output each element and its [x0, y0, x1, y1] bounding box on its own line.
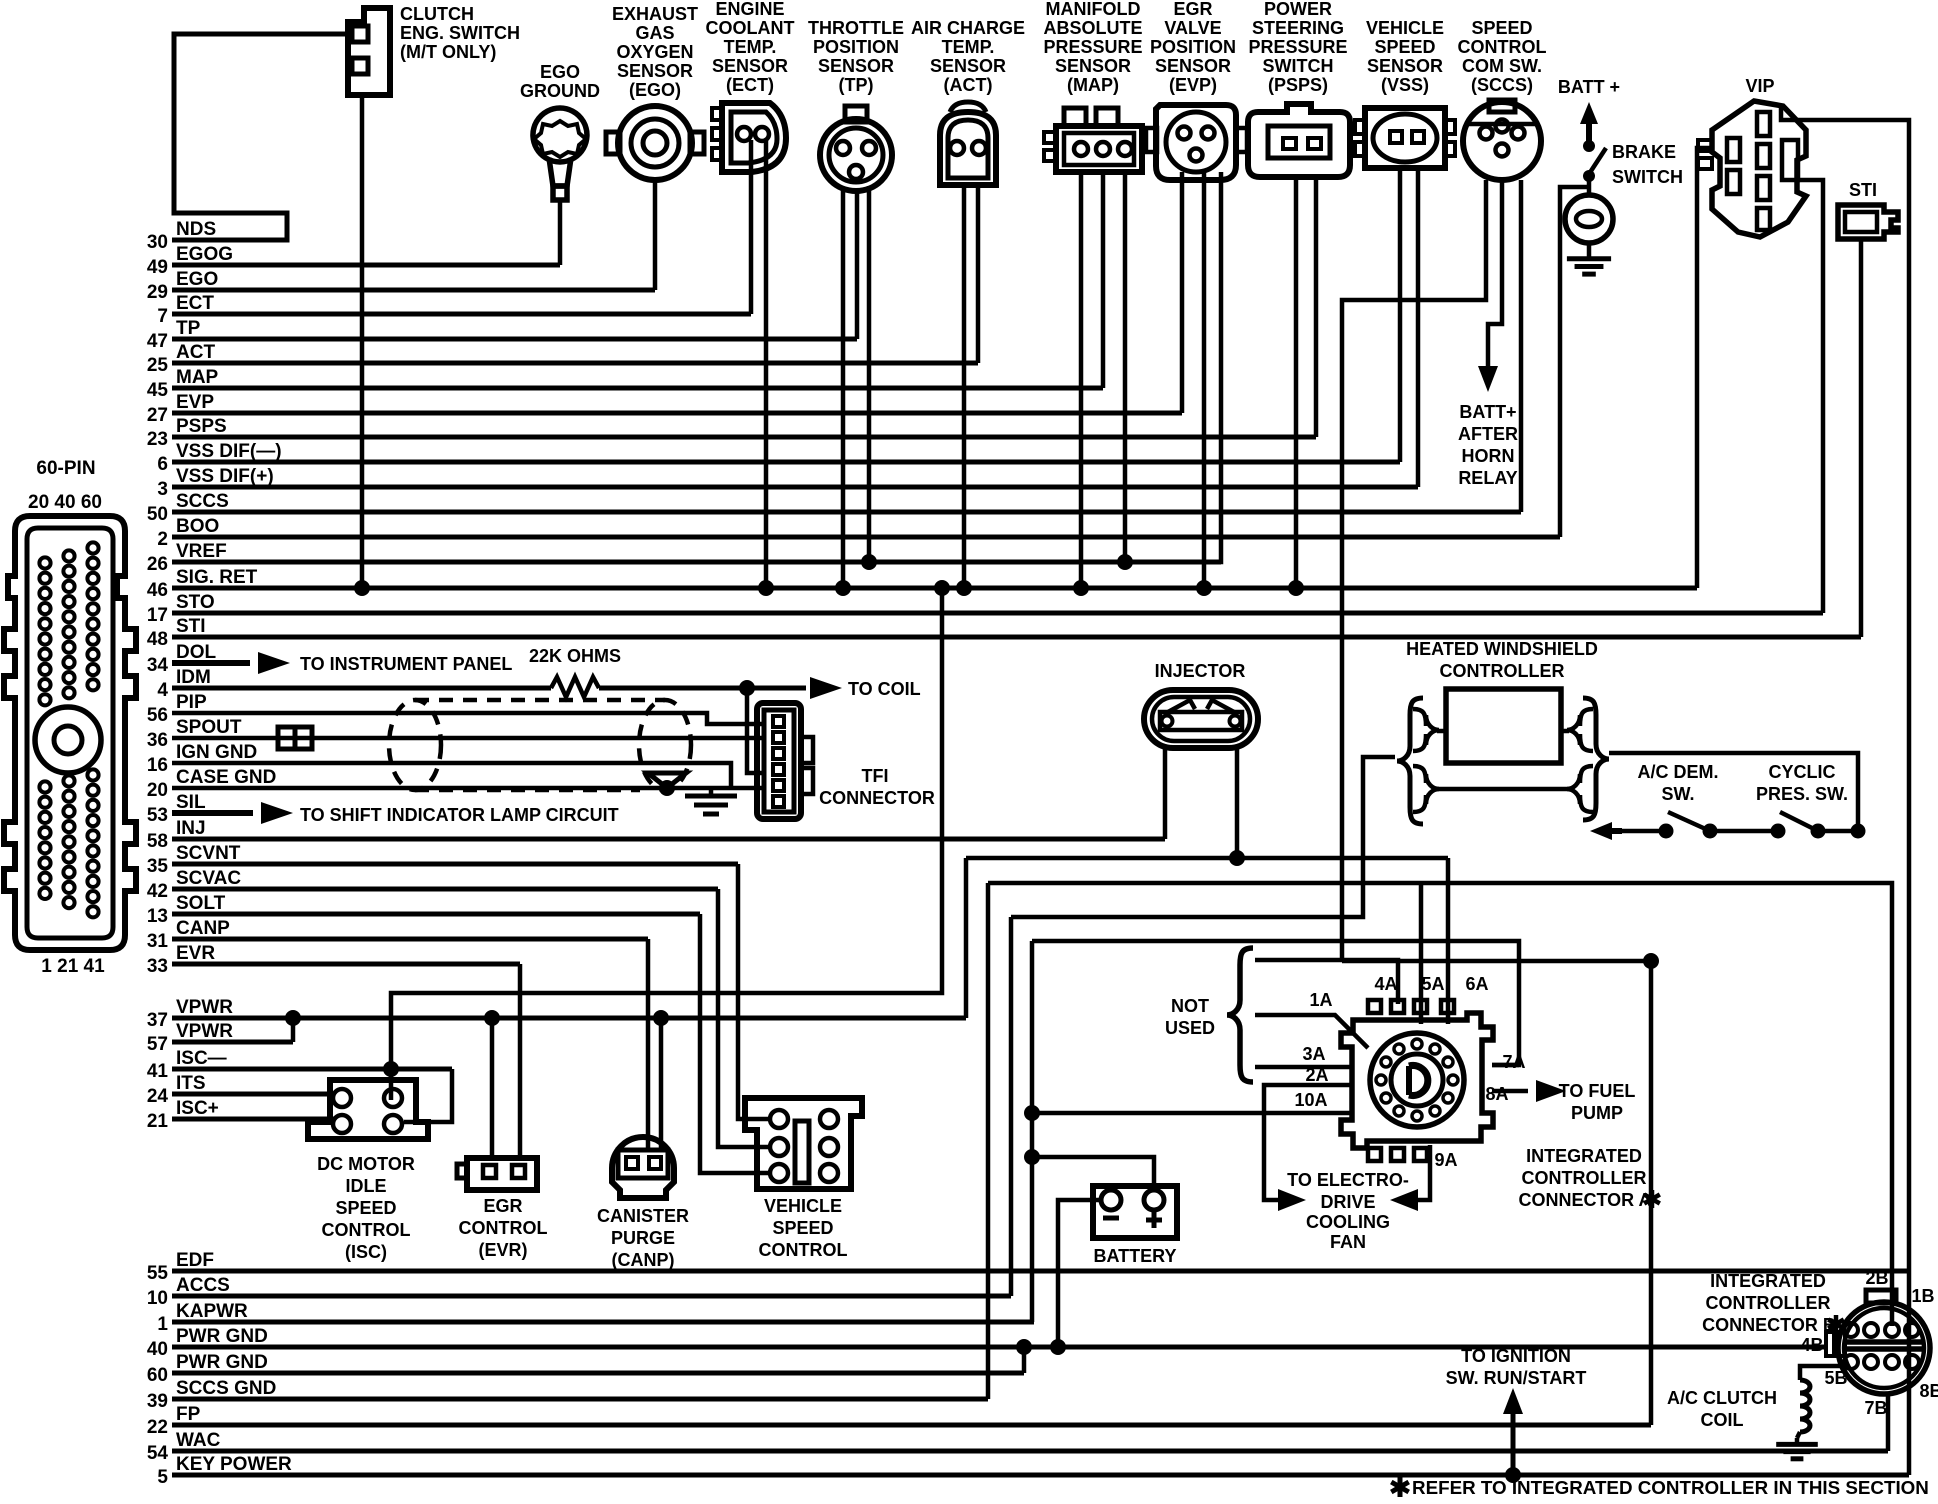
svg-text:COOLANT: COOLANT [706, 18, 795, 38]
svg-text:CONNECTOR: CONNECTOR [819, 788, 935, 808]
wire 5B to A/C clutch coil [1800, 1366, 1847, 1380]
ground symbol below brake lamp [1587, 243, 1592, 252]
svg-text:INJECTOR: INJECTOR [1155, 661, 1246, 681]
svg-text:SPEED: SPEED [1374, 37, 1435, 57]
svg-text:KAPWR: KAPWR [176, 1301, 248, 1322]
wire VPWR57 riser [291, 1018, 296, 1042]
svg-text:(EVR): (EVR) [479, 1240, 528, 1260]
svg-text:DRIVE: DRIVE [1320, 1192, 1375, 1212]
svg-text:20 40 60: 20 40 60 [28, 492, 102, 513]
svg-text:ABSOLUTE: ABSOLUTE [1044, 18, 1143, 38]
connector 60-PIN pin holes [39, 542, 98, 917]
svg-text:SIL: SIL [176, 792, 206, 813]
svg-text:41: 41 [147, 1061, 169, 1082]
svg-text:SENSOR: SENSOR [617, 61, 693, 81]
connector SPOUT in-line connector symbol [278, 727, 295, 749]
svg-text:BOO: BOO [176, 516, 219, 537]
svg-text:SENSOR: SENSOR [818, 56, 894, 76]
svg-text:27: 27 [147, 405, 168, 426]
svg-text:SWITCH: SWITCH [1263, 56, 1334, 76]
wire PSPS pin to PSPS row [1314, 177, 1319, 437]
svg-text:EVP: EVP [176, 392, 214, 413]
svg-text:NOT: NOT [1171, 996, 1209, 1016]
svg-text:CONTROLLER: CONTROLLER [1522, 1168, 1647, 1188]
svg-text:3A: 3A [1302, 1044, 1325, 1064]
svg-text:7: 7 [157, 306, 168, 327]
svg-text:HORN: HORN [1462, 446, 1515, 466]
svg-text:16: 16 [147, 755, 168, 776]
svg-text:5: 5 [157, 1467, 168, 1488]
svg-text:ITS: ITS [176, 1073, 206, 1094]
svg-text:EGR: EGR [1173, 0, 1212, 19]
wire 10A to battery net [1032, 1111, 1352, 1116]
svg-text:10: 10 [147, 1288, 168, 1309]
svg-text:TEMP.: TEMP. [724, 37, 777, 57]
svg-text:WAC: WAC [176, 1430, 221, 1451]
svg-text:PWR GND: PWR GND [176, 1352, 268, 1373]
wire VIP left pins to SIG. RET [1697, 148, 1712, 588]
svg-text:SW.: SW. [1661, 784, 1694, 804]
wire WAC to connector B 7B [1886, 1394, 1891, 1451]
svg-text:IDLE: IDLE [345, 1176, 386, 1196]
svg-text:SPEED: SPEED [772, 1218, 833, 1238]
wire net H3 vertical to ACCS row [1009, 917, 1014, 1296]
svg-text:STO: STO [176, 592, 215, 613]
svg-text:35: 35 [147, 856, 169, 877]
svg-text:36: 36 [147, 730, 168, 751]
wire arrow TO COIL [747, 686, 806, 691]
wire EGO GROUND to EGOG row [558, 200, 563, 265]
svg-text:SENSOR: SENSOR [712, 56, 788, 76]
svg-text:45: 45 [147, 380, 169, 401]
svg-text:20: 20 [147, 780, 168, 801]
node brake switch upper contact [1583, 140, 1595, 152]
arrow BATT+ up [1586, 118, 1592, 142]
node ISC- crossing junction [383, 1061, 399, 1077]
svg-text:VEHICLE: VEHICLE [764, 1196, 842, 1216]
arrow BATT+ AFTER HORN RELAY [1478, 366, 1498, 392]
svg-text:KEY POWER: KEY POWER [176, 1454, 292, 1475]
svg-text:VSS DIF(+): VSS DIF(+) [176, 466, 274, 487]
wire 1A (not used) [1255, 1015, 1368, 1048]
svg-text:AIR CHARGE: AIR CHARGE [911, 18, 1025, 38]
svg-text:42: 42 [147, 881, 168, 902]
svg-text:(CANP): (CANP) [612, 1250, 675, 1270]
brace right outer (windshield) [1583, 698, 1609, 820]
svg-text:ACCS: ACCS [176, 1275, 230, 1296]
node PSPS to SIG. RET junction [1288, 580, 1304, 596]
svg-text:PUMP: PUMP [1571, 1103, 1623, 1123]
node TP to VREF junction [861, 554, 877, 570]
svg-text:31: 31 [147, 931, 169, 952]
svg-text:EVR: EVR [176, 943, 215, 964]
svg-text:1 21 41: 1 21 41 [41, 956, 105, 977]
node VPWR to EVR junction [484, 1010, 500, 1026]
svg-text:CONTROL: CONTROL [459, 1218, 548, 1238]
wire SIG. RET drop to ISC [391, 588, 942, 1100]
label REFER TO INTEGRATED CONTROLLER IN THIS SECTION [1398, 1477, 1403, 1497]
wire battery - to PWR GND [1058, 1200, 1101, 1347]
svg-text:SENSOR: SENSOR [930, 56, 1006, 76]
svg-text:SWITCH: SWITCH [1612, 167, 1683, 187]
svg-text:COOLING: COOLING [1306, 1212, 1390, 1232]
wire shield drain Y [648, 773, 686, 788]
node MAP to SIG. RET junction [1073, 580, 1089, 596]
svg-text:6: 6 [157, 454, 168, 475]
wire windshield box stub right [1561, 729, 1569, 734]
wire STI connector to STI row [1859, 239, 1864, 637]
svg-text:47: 47 [147, 331, 168, 352]
node VPWR37/VPWR57 junction [285, 1010, 301, 1026]
svg-text:INTEGRATED: INTEGRATED [1526, 1146, 1642, 1166]
wire CANP row drop to solenoid [646, 939, 651, 1150]
svg-text:1B: 1B [1911, 1286, 1934, 1306]
wire VPWR to CANP solenoid [659, 1018, 664, 1150]
svg-text:PRESSURE: PRESSURE [1248, 37, 1347, 57]
svg-text:9A: 9A [1434, 1150, 1457, 1170]
wire CASE GND pin20 to ground and TFI pin6 [172, 786, 762, 791]
svg-text:MANIFOLD: MANIFOLD [1046, 0, 1141, 19]
battery terminal - [1101, 1190, 1121, 1210]
wire PIP pin56 to TFI pin1 [172, 713, 762, 724]
svg-text:CONNECTOR A: CONNECTOR A [1518, 1190, 1651, 1210]
svg-text:VSS DIF(—): VSS DIF(—) [176, 441, 282, 462]
svg-text:34: 34 [147, 655, 169, 676]
wire ECT pin to ECT row [749, 140, 754, 314]
solenoid EGR CONTROL (EVR) [457, 1158, 537, 1190]
svg-text:AFTER: AFTER [1458, 424, 1518, 444]
connector 60-PIN outer shell [4, 516, 136, 950]
svg-text:30: 30 [147, 232, 168, 253]
svg-text:ECT: ECT [176, 293, 214, 314]
svg-text:5B: 5B [1824, 1368, 1847, 1388]
svg-text:56: 56 [147, 705, 168, 726]
svg-text:(TP): (TP) [839, 75, 874, 95]
svg-text:VPWR: VPWR [176, 997, 233, 1018]
wire SCCS pin to A/C switch feed [1342, 180, 1486, 961]
wire net H2 vertical to SCCS GND row [986, 883, 991, 1399]
svg-text:21: 21 [147, 1111, 169, 1132]
svg-text:39: 39 [147, 1391, 168, 1412]
svg-text:SPEED: SPEED [1471, 18, 1532, 38]
svg-text:RELAY: RELAY [1458, 468, 1517, 488]
svg-text:3: 3 [157, 479, 168, 500]
wire net H2 SCCS GND to connector B 2B [988, 883, 1892, 1326]
battery minus sign [1103, 1216, 1119, 1221]
svg-text:2B: 2B [1865, 1268, 1888, 1288]
svg-text:60: 60 [147, 1365, 168, 1386]
svg-text:(ISC): (ISC) [345, 1242, 387, 1262]
connector 60-PIN EEC-IV (J1) [4, 458, 136, 977]
svg-text:CONNECTOR B: CONNECTOR B [1702, 1315, 1836, 1335]
svg-text:ENG. SWITCH: ENG. SWITCH [400, 23, 520, 43]
node A/C DEM SW contact B [1703, 824, 1718, 839]
node TP to SIG. RET junction [835, 580, 851, 596]
component DC MOTOR IDLE SPEED CONTROL (ISC) [308, 1080, 428, 1139]
connector 60-PIN key circle [35, 707, 101, 773]
svg-text:THROTTLE: THROTTLE [808, 18, 904, 38]
wire FP riser [1649, 961, 1654, 1425]
node IDM/TO COIL junction [739, 680, 755, 696]
svg-text:2A: 2A [1305, 1065, 1328, 1085]
wire 3A (not used) [1255, 1065, 1352, 1070]
svg-text:TO COIL: TO COIL [848, 679, 921, 699]
wire VSS pin to VSS DIF(+) row [1416, 168, 1421, 487]
svg-text:58: 58 [147, 831, 168, 852]
brace left lower (windshield) [1413, 766, 1439, 812]
svg-text:23: 23 [147, 429, 168, 450]
svg-text:5A: 5A [1421, 974, 1444, 994]
svg-text:SCVAC: SCVAC [176, 868, 241, 889]
wire net H4 vertical to KAPWR row [1030, 941, 1035, 1322]
switch CYCLIC PRES. SW. blade [1780, 812, 1818, 831]
wire SCCS pin to SCCS row [1519, 180, 1524, 512]
svg-text:BATT +: BATT + [1558, 77, 1620, 97]
svg-text:22: 22 [147, 1417, 168, 1438]
node battery - to PWR GND 40 junction [1050, 1339, 1066, 1355]
svg-text:REFER TO INTEGRATED CONTROLLER: REFER TO INTEGRATED CONTROLLER IN THIS S… [1412, 1477, 1929, 1498]
svg-text:HEATED WINDSHIELD: HEATED WINDSHIELD [1406, 639, 1598, 659]
svg-text:50: 50 [147, 504, 168, 525]
svg-text:EGO: EGO [176, 269, 218, 290]
svg-text:CYCLIC: CYCLIC [1769, 762, 1836, 782]
ground symbol at TFI / CASE GND [709, 788, 714, 796]
svg-text:1A: 1A [1309, 990, 1332, 1010]
svg-text:POWER: POWER [1264, 0, 1332, 19]
svg-text:VIP: VIP [1745, 76, 1774, 96]
svg-text:55: 55 [147, 1263, 169, 1284]
svg-text:SCCS: SCCS [176, 491, 229, 512]
svg-text:COM SW.: COM SW. [1462, 56, 1542, 76]
svg-text:COIL: COIL [1701, 1410, 1744, 1430]
svg-text:PWR GND: PWR GND [176, 1326, 268, 1347]
svg-text:(EVP): (EVP) [1169, 75, 1217, 95]
node CYCLIC PRES SW contact A [1771, 824, 1786, 839]
wire EVP pin to VREF end [1218, 172, 1221, 562]
svg-text:25: 25 [147, 355, 169, 376]
wire IDM pin4 with 22K OHMS resistor [172, 686, 551, 691]
node WAC net junction [1643, 953, 1659, 969]
battery plus sign v [1152, 1212, 1157, 1228]
svg-text:TO SHIFT INDICATOR LAMP CIRCUI: TO SHIFT INDICATOR LAMP CIRCUIT [300, 805, 619, 825]
node injector to H1 junction [1229, 850, 1245, 866]
connector 60-PIN inner shell [27, 528, 113, 938]
svg-text:33: 33 [147, 956, 168, 977]
svg-text:FP: FP [176, 1404, 201, 1425]
svg-text:A/C CLUTCH: A/C CLUTCH [1667, 1388, 1777, 1408]
svg-text:EGOG: EGOG [176, 244, 233, 265]
svg-text:SOLT: SOLT [176, 893, 226, 914]
svg-text:CONTROL: CONTROL [322, 1220, 411, 1240]
svg-text:(M/T ONLY): (M/T ONLY) [400, 42, 496, 62]
svg-text:INTEGRATED: INTEGRATED [1710, 1271, 1826, 1291]
svg-text:7B: 7B [1864, 1398, 1887, 1418]
wire injector INJ drop [1163, 747, 1168, 839]
svg-text:OXYGEN: OXYGEN [616, 42, 693, 62]
svg-text:CANP: CANP [176, 918, 230, 939]
svg-text:(ACT): (ACT) [944, 75, 993, 95]
svg-text:4: 4 [157, 680, 168, 701]
wire injector right pin to H1 [1235, 747, 1240, 858]
svg-text:CANISTER: CANISTER [597, 1206, 689, 1226]
box battery [1093, 1186, 1177, 1238]
switch BRAKE SWITCH blade [1589, 148, 1606, 174]
wire SCVAC drop to VSC [718, 889, 770, 1147]
svg-text:CONTROL: CONTROL [1458, 37, 1547, 57]
svg-text:GAS: GAS [635, 23, 674, 43]
svg-text:40: 40 [147, 1339, 168, 1360]
svg-text:57: 57 [147, 1034, 168, 1055]
wire TP pin to VREF [867, 186, 872, 562]
node EVP to SIG. RET junction [1196, 580, 1212, 596]
svg-text:DC MOTOR: DC MOTOR [317, 1154, 415, 1174]
svg-text:SENSOR: SENSOR [1055, 56, 1131, 76]
wire clutch switch to SIG. RET [360, 95, 365, 588]
svg-text:17: 17 [147, 605, 168, 626]
lamp brake warning bulb [1565, 195, 1613, 243]
wire 9A to cooling fan [1412, 1145, 1430, 1200]
svg-text:10A: 10A [1294, 1090, 1327, 1110]
wire EVR row drop to solenoid [518, 964, 523, 1158]
battery terminal + [1144, 1190, 1164, 1210]
wire NDS pin30 to clutch switch [172, 34, 348, 240]
wire TP pin to TP row [855, 190, 860, 339]
svg-text:(ECT): (ECT) [726, 75, 774, 95]
svg-text:CLUTCH: CLUTCH [400, 4, 474, 24]
svg-text:POSITION: POSITION [1150, 37, 1236, 57]
svg-text:EGR: EGR [483, 1196, 522, 1216]
svg-text:POSITION: POSITION [813, 37, 899, 57]
brace right inner (windshield) [1567, 709, 1593, 751]
node battery + to KAPWR net junction [1024, 1149, 1040, 1165]
svg-text:SPEED: SPEED [335, 1198, 396, 1218]
svg-text:TFI: TFI [862, 766, 889, 786]
wire ECT pin to SIG. RET [764, 140, 769, 588]
node SIG. RET drop junction [934, 580, 950, 596]
wire VIP right pin to STO row [1798, 180, 1823, 613]
battery plus sign h [1146, 1218, 1162, 1223]
svg-text:ACT: ACT [176, 342, 215, 363]
svg-text:TO FUEL: TO FUEL [1559, 1081, 1636, 1101]
cable shield dashed capsule around PIP/SPOUT/IGN GND [389, 700, 691, 790]
svg-text:EGO: EGO [540, 62, 580, 82]
wire SCCS feed / WAC net horizontal [1342, 959, 1651, 964]
node ECT to SIG. RET junction [758, 580, 774, 596]
svg-text:CONTROLLER: CONTROLLER [1440, 661, 1565, 681]
svg-text:37: 37 [147, 1010, 168, 1031]
svg-text:PRES. SW.: PRES. SW. [1756, 784, 1848, 804]
node clutch to SIG. RET junction [354, 580, 370, 596]
svg-text:VEHICLE: VEHICLE [1366, 18, 1444, 38]
wire IGN GND pin16 [172, 763, 731, 788]
solenoid CANISTER PURGE (CANP) [612, 1137, 674, 1198]
svg-text:VREF: VREF [176, 541, 227, 562]
wire EGO sensor to EGO row [653, 180, 658, 290]
wire windshield second row [1437, 787, 1569, 792]
node shield drain to CASE GND [659, 780, 675, 796]
svg-text:A/C DEM.: A/C DEM. [1638, 762, 1719, 782]
svg-text:SCCS GND: SCCS GND [176, 1378, 276, 1399]
svg-text:STEERING: STEERING [1252, 18, 1344, 38]
node CYCLIC PRES SW contact B [1811, 824, 1826, 839]
svg-text:22K OHMS: 22K OHMS [529, 646, 621, 666]
wire windshield box stub left [1437, 729, 1446, 734]
svg-text:IGN GND: IGN GND [176, 742, 257, 763]
wire net H1 vertical to VPWR row [964, 858, 969, 1018]
wire VSS pin to VSS DIF(-) row [1398, 168, 1403, 462]
svg-text:54: 54 [147, 1443, 169, 1464]
wire ACT pin to ACT row [976, 185, 981, 363]
svg-text:(PSPS): (PSPS) [1268, 75, 1328, 95]
wire TP pin to SIG. RET [841, 188, 846, 588]
wire 7A [1492, 1063, 1519, 1068]
svg-text:MAP: MAP [176, 367, 219, 388]
svg-text:FAN: FAN [1330, 1232, 1366, 1252]
svg-text:PSPS: PSPS [176, 416, 227, 437]
wire 6A vertical [1446, 858, 1451, 1024]
svg-text:SW. RUN/START: SW. RUN/START [1446, 1368, 1587, 1388]
wire MAP pin to SIG. RET [1079, 172, 1084, 588]
svg-text:(SCCS): (SCCS) [1471, 75, 1533, 95]
svg-text:INJ: INJ [176, 818, 206, 839]
wire 8A arrow to fuel pump [1492, 1089, 1528, 1094]
svg-text:BATTERY: BATTERY [1094, 1246, 1177, 1266]
wire A/C demand switch chain [1606, 828, 1622, 834]
switch CLUTCH ENG. SWITCH (M/T ONLY) [348, 8, 390, 95]
svg-text:8A: 8A [1485, 1084, 1508, 1104]
svg-text:7A: 7A [1502, 1052, 1525, 1072]
svg-text:60-PIN: 60-PIN [36, 458, 95, 479]
connector INTEGRATED CONTROLLER CONNECTOR A [1341, 1013, 1493, 1148]
brace left outer (windshield) [1397, 698, 1423, 824]
svg-text:48: 48 [147, 629, 168, 650]
wire PSPS pin to SIG. RET [1294, 177, 1299, 588]
node A/C DEM SW contact A [1659, 824, 1674, 839]
wire brake switch to lamp [1587, 176, 1592, 196]
svg-text:PIP: PIP [176, 692, 207, 713]
wire EVP pin to SIG. RET [1202, 172, 1207, 588]
ground symbol below A/C clutch coil [1797, 1432, 1800, 1438]
wire SCVNT drop to VSC [738, 864, 770, 1119]
wire battery + to KAPWR net [1032, 1157, 1154, 1190]
node A/C chain corner junction [1851, 824, 1866, 839]
brace left inner (windshield) [1413, 709, 1439, 751]
svg-text:(MAP): (MAP) [1067, 75, 1119, 95]
svg-text:4A: 4A [1374, 974, 1397, 994]
wire DOL pin34 arrow to instrument panel [172, 660, 250, 666]
node MAP to VREF junction [1117, 554, 1133, 570]
svg-text:53: 53 [147, 805, 168, 826]
svg-text:24: 24 [147, 1086, 169, 1107]
svg-text:STI: STI [1849, 180, 1877, 200]
svg-text:BRAKE: BRAKE [1612, 142, 1676, 162]
svg-text:STI: STI [176, 616, 206, 637]
svg-text:SENSOR: SENSOR [1155, 56, 1231, 76]
svg-text:PURGE: PURGE [611, 1228, 675, 1248]
wire net H4 KAPWR to 7A [1032, 941, 1519, 1065]
wire brake switch to BOO row [1560, 187, 1589, 537]
svg-text:USED: USED [1165, 1018, 1215, 1038]
svg-text:1: 1 [157, 1314, 168, 1335]
wire 2A to cooling fan [1264, 1085, 1352, 1200]
svg-text:CASE GND: CASE GND [176, 767, 276, 788]
svg-text:EXHAUST: EXHAUST [612, 4, 698, 24]
brace right lower (windshield) [1567, 766, 1593, 812]
wire PWR GND 60 jog to PWR GND 40 [1022, 1347, 1027, 1373]
svg-text:TP: TP [176, 318, 201, 339]
wire MAP pin to VREF [1123, 172, 1128, 562]
svg-text:ISC+: ISC+ [176, 1098, 219, 1119]
